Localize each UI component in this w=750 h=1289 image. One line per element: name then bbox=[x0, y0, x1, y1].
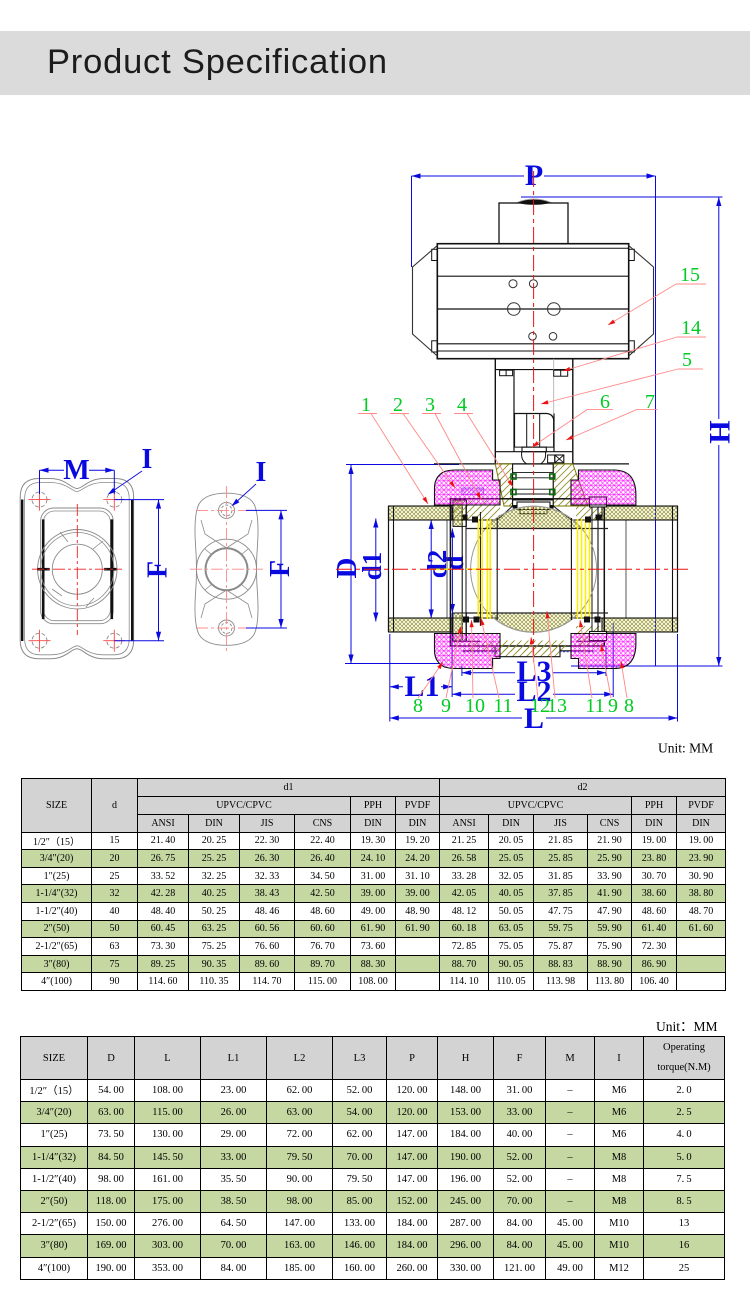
svg-text:d: d bbox=[439, 555, 469, 570]
center circles bbox=[38, 530, 117, 609]
vertical centerline bbox=[533, 171, 535, 662]
actuator right end cap bbox=[629, 246, 654, 357]
body lugs bbox=[590, 497, 607, 507]
unit note (table 2) bbox=[656, 1015, 718, 1035]
flange boss bbox=[41, 508, 114, 624]
svg-text:9: 9 bbox=[608, 695, 618, 717]
pipe spigot ends bbox=[446, 520, 448, 618]
ball seats 10 (yellow) bbox=[477, 519, 479, 619]
dim M bbox=[40, 469, 115, 471]
svg-text:M: M bbox=[63, 455, 89, 486]
dim d1 bbox=[357, 519, 387, 622]
svg-text:13: 13 bbox=[547, 695, 567, 717]
dim D bbox=[331, 465, 459, 664]
svg-text:5: 5 bbox=[682, 349, 692, 371]
svg-text:9: 9 bbox=[441, 695, 451, 717]
svg-text:H: H bbox=[703, 420, 736, 443]
valve body 9 bbox=[450, 499, 604, 646]
dimension table 1 (d1/d2) bbox=[21, 778, 726, 991]
neck hatch left bbox=[495, 464, 512, 506]
title band bbox=[0, 31, 750, 95]
actuator top knob bbox=[518, 200, 550, 204]
body flange columns bbox=[454, 500, 463, 526]
union nut top-right bbox=[571, 470, 636, 505]
union nut bottom-left 8 bbox=[435, 634, 501, 669]
svg-text:8: 8 bbox=[624, 695, 634, 717]
dimension table 2 (overall) bbox=[20, 1036, 725, 1280]
flange centerlines bbox=[76, 504, 78, 635]
bracket bottom plate bbox=[495, 451, 573, 453]
svg-text:14: 14 bbox=[681, 317, 701, 339]
svg-text:I: I bbox=[142, 444, 153, 475]
union nut top-left 2 bbox=[435, 470, 501, 505]
svg-text:2: 2 bbox=[393, 394, 403, 416]
gland follower bbox=[517, 502, 550, 510]
stem coupling 6 bbox=[522, 447, 546, 452]
oval centerlines bbox=[226, 486, 228, 654]
oval bolt holes bbox=[219, 502, 235, 518]
neck hatch right bbox=[553, 464, 588, 506]
dim L1 bbox=[390, 613, 452, 703]
union nut bottom-right bbox=[571, 634, 636, 669]
actuator face holes bbox=[509, 280, 517, 288]
flange end view (oval) bbox=[195, 493, 258, 645]
svg-text:F: F bbox=[143, 561, 174, 578]
actuator solenoid box bbox=[499, 203, 568, 244]
svg-text:3: 3 bbox=[425, 394, 435, 416]
svg-text:Unit: MM: Unit: MM bbox=[658, 741, 713, 756]
svg-text:8: 8 bbox=[413, 695, 423, 717]
svg-text:15: 15 bbox=[680, 264, 700, 286]
horizontal centerline bbox=[336, 568, 692, 570]
dim L bbox=[390, 634, 678, 735]
dim F (square flange) bbox=[158, 500, 160, 641]
svg-text:11: 11 bbox=[585, 695, 604, 717]
left pipe end connector bbox=[389, 506, 453, 520]
actuator body 15 bbox=[437, 244, 628, 359]
actuator corner tabs bbox=[432, 249, 438, 260]
svg-text:10: 10 bbox=[465, 695, 485, 717]
dim d2 bbox=[422, 520, 452, 618]
bottom boss bbox=[495, 646, 560, 657]
o-ring seals 11 (black) bbox=[462, 515, 468, 521]
svg-text:F: F bbox=[265, 560, 296, 577]
right pipe end connector bbox=[602, 506, 678, 520]
actuator left end cap bbox=[413, 246, 438, 357]
flange end view (square) bbox=[20, 479, 133, 659]
dim F (oval flange) bbox=[280, 510, 282, 628]
dim P bbox=[412, 159, 656, 666]
dim d bbox=[439, 529, 469, 614]
svg-text:I: I bbox=[256, 457, 267, 488]
stem packing 4 bbox=[513, 464, 554, 506]
dim L3 bbox=[462, 646, 606, 688]
svg-text:4: 4 bbox=[457, 394, 467, 416]
bolt holes bbox=[32, 492, 47, 507]
ball 12 bbox=[471, 506, 597, 632]
stem slots bbox=[37, 568, 50, 571]
dim L2 bbox=[452, 623, 613, 708]
seat retainer (blue hatch) bbox=[462, 488, 484, 495]
limit stop bbox=[548, 455, 555, 463]
svg-text:1: 1 bbox=[361, 394, 371, 416]
mounting bracket 14 bbox=[494, 359, 496, 464]
dim H bbox=[521, 197, 736, 666]
svg-text:11: 11 bbox=[493, 695, 512, 717]
stem 5 bbox=[515, 414, 554, 448]
svg-text:d1: d1 bbox=[357, 552, 387, 581]
